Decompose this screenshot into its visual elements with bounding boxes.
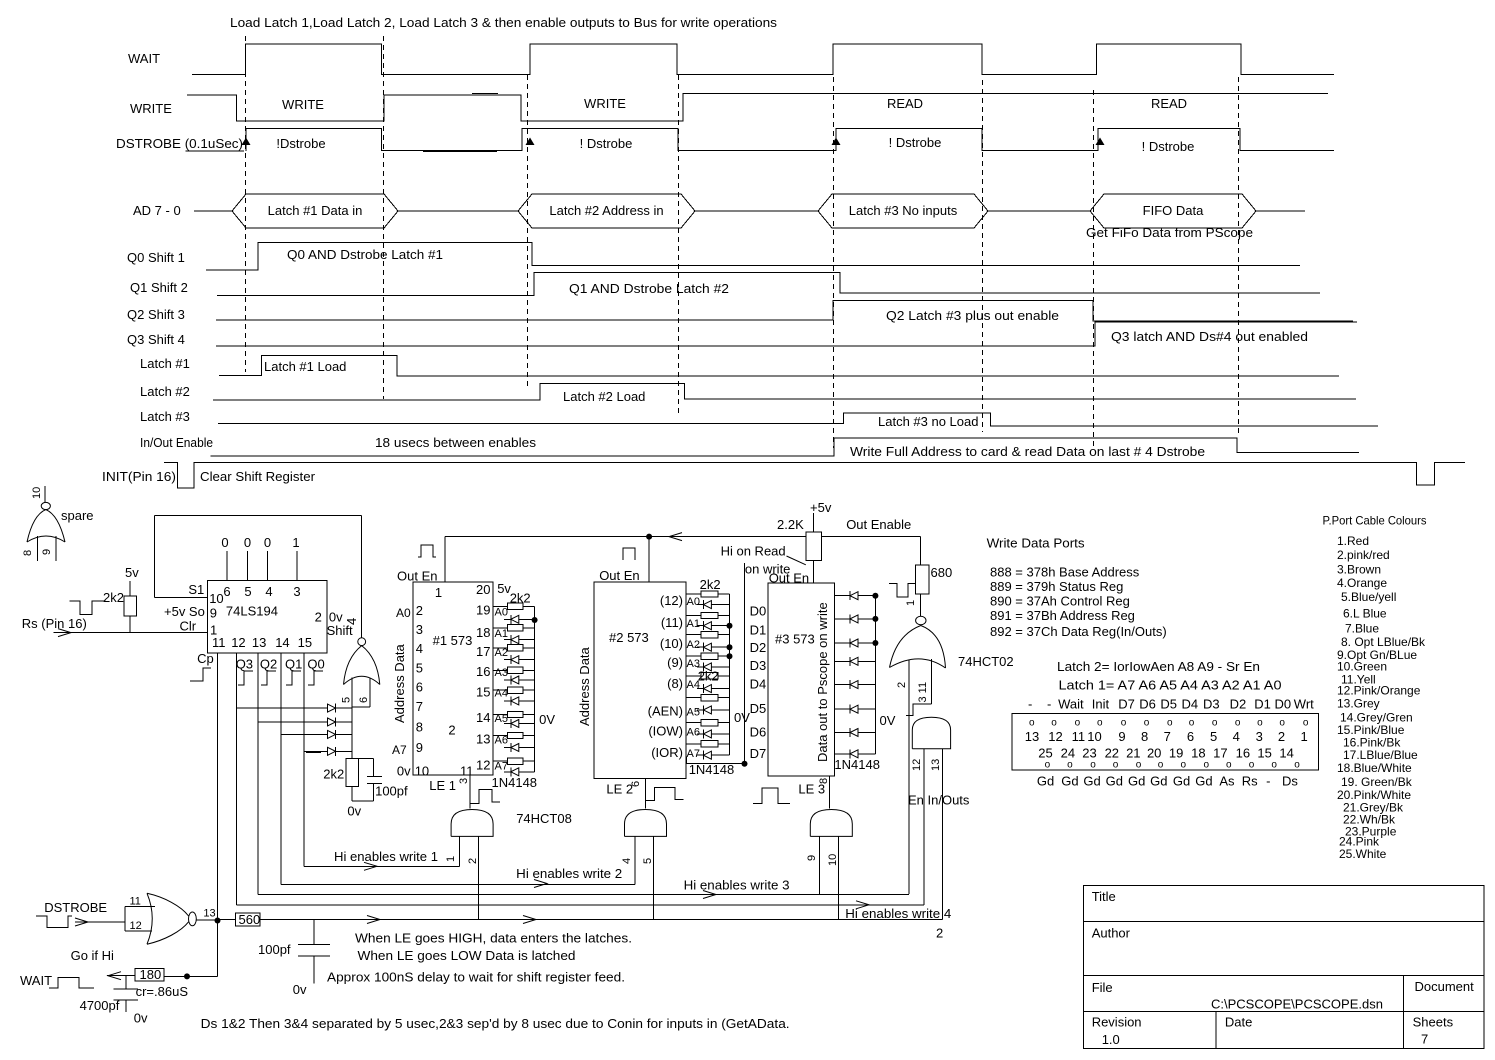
svg-text:WAIT: WAIT: [128, 51, 160, 66]
svg-text:0v: 0v: [134, 1011, 148, 1026]
svg-text:Q3: Q3: [236, 657, 253, 672]
svg-text:Latch #2 Load: Latch #2 Load: [563, 389, 645, 404]
svg-text:3: 3: [458, 778, 470, 784]
svg-text:3.Brown: 3.Brown: [1337, 563, 1381, 577]
svg-text:1N4148: 1N4148: [492, 775, 538, 790]
svg-text:File: File: [1092, 980, 1113, 995]
svg-text:Address Data: Address Data: [577, 646, 592, 726]
svg-text:Q1 AND Dstrobe Latch #2: Q1 AND Dstrobe Latch #2: [569, 281, 729, 296]
svg-text:When LE goes LOW Data is latch: When LE goes LOW Data is latched: [358, 948, 576, 963]
svg-text:2: 2: [448, 723, 455, 738]
svg-text:(9): (9): [667, 655, 683, 670]
svg-text:o: o: [1303, 718, 1309, 729]
svg-text:2k2: 2k2: [700, 577, 721, 592]
svg-text:WRITE: WRITE: [130, 101, 172, 116]
svg-text:A1: A1: [687, 618, 700, 630]
svg-text:0: 0: [244, 535, 251, 550]
svg-text:0V: 0V: [539, 712, 555, 727]
svg-text:o: o: [1279, 718, 1285, 729]
svg-text:14: 14: [476, 710, 490, 725]
svg-text:13: 13: [930, 759, 942, 771]
svg-text:! Dstrobe: ! Dstrobe: [580, 136, 633, 151]
svg-text:(11): (11): [661, 615, 683, 630]
svg-text:-: -: [1266, 774, 1270, 789]
svg-text:8: 8: [1141, 729, 1148, 744]
svg-text:2.pink/red: 2.pink/red: [1337, 548, 1390, 562]
svg-text:12: 12: [476, 758, 490, 773]
svg-text:892 = 37Ch Data Reg(In/Outs): 892 = 37Ch Data Reg(In/Outs): [990, 624, 1167, 639]
svg-text:10: 10: [209, 591, 223, 606]
svg-text:A5: A5: [687, 706, 700, 718]
svg-text:WRITE: WRITE: [584, 96, 626, 111]
svg-text:o: o: [1051, 718, 1057, 729]
svg-text:Latch #3 No inputs: Latch #3 No inputs: [849, 203, 958, 218]
svg-text:Latch 1= A7 A6 A5 A4 A3 A2: Latch 1= A7 A6 A5 A4 A3 A2 A1 A0: [1059, 678, 1282, 693]
svg-text:Gd: Gd: [1173, 774, 1190, 789]
svg-text:Q3 latch AND Ds#4 out enabled: Q3 latch AND Ds#4 out enabled: [1111, 329, 1308, 344]
svg-text:8: 8: [818, 778, 830, 784]
svg-text:12.Pink/Orange: 12.Pink/Orange: [1337, 684, 1421, 698]
svg-text:Latch #3: Latch #3: [140, 409, 190, 424]
svg-text:890 = 37Ah Control Reg: 890 = 37Ah Control Reg: [990, 593, 1130, 608]
svg-text:2: 2: [936, 926, 943, 941]
svg-text:o: o: [1204, 760, 1210, 771]
svg-text:12: 12: [1048, 729, 1062, 744]
svg-text:0v: 0v: [347, 804, 361, 819]
svg-text:5: 5: [416, 660, 423, 675]
svg-text:6: 6: [630, 781, 642, 787]
svg-text:15: 15: [1257, 746, 1271, 761]
svg-text:D1: D1: [750, 623, 767, 638]
svg-text:Hi enables write 3: Hi enables write 3: [684, 878, 790, 893]
svg-text:In/Out Enable: In/Out Enable: [140, 435, 213, 450]
svg-text:2: 2: [315, 610, 322, 625]
svg-text:5.Blue/yell: 5.Blue/yell: [1341, 590, 1396, 604]
svg-text:13: 13: [1025, 729, 1039, 744]
svg-text:4700pf: 4700pf: [80, 998, 120, 1013]
svg-text:10: 10: [827, 854, 839, 866]
svg-text:2.2K: 2.2K: [777, 517, 804, 532]
svg-text:(10): (10): [660, 636, 683, 651]
svg-text:o: o: [1257, 718, 1263, 729]
svg-text:!Dstrobe: !Dstrobe: [276, 136, 325, 151]
svg-text:AD 7 - 0: AD 7 - 0: [133, 203, 181, 218]
svg-text:2: 2: [416, 603, 423, 618]
svg-text:6: 6: [358, 697, 370, 703]
svg-text:! Dstrobe: ! Dstrobe: [1142, 139, 1195, 154]
svg-text:Q1 Shift 2: Q1 Shift 2: [130, 280, 188, 295]
svg-text:9: 9: [210, 606, 217, 621]
svg-text:INIT(Pin 16): INIT(Pin 16): [102, 469, 176, 484]
svg-text:1.0: 1.0: [1102, 1032, 1120, 1047]
svg-text:7.Blue: 7.Blue: [1345, 621, 1379, 635]
svg-text:1: 1: [435, 585, 442, 600]
svg-text:0v: 0v: [293, 982, 307, 997]
svg-text:7: 7: [1421, 1032, 1428, 1047]
svg-text:READ: READ: [1151, 96, 1187, 111]
svg-text:5: 5: [341, 697, 353, 703]
svg-text:A2: A2: [687, 639, 700, 651]
svg-text:S1: S1: [188, 582, 204, 597]
svg-text:Clear Shift Register: Clear Shift Register: [200, 469, 316, 484]
svg-text:P.Port Cable Colours: P.Port Cable Colours: [1323, 514, 1427, 528]
svg-text:6: 6: [223, 584, 230, 599]
svg-text:888 = 378h Base Address: 888 = 378h Base Address: [990, 564, 1140, 579]
svg-text:11: 11: [460, 764, 474, 779]
svg-text:-: -: [1047, 697, 1051, 712]
svg-text:1.Red: 1.Red: [1337, 534, 1369, 548]
svg-text:680: 680: [931, 565, 953, 580]
svg-text:Title: Title: [1092, 889, 1116, 904]
svg-text:Ds: Ds: [1282, 774, 1298, 789]
svg-text:D7: D7: [1118, 697, 1135, 712]
svg-text:9: 9: [806, 855, 818, 861]
svg-text:DSTROBE (0.1uSec): DSTROBE (0.1uSec): [116, 136, 243, 151]
svg-text:spare: spare: [61, 508, 94, 523]
svg-text:(IOR): (IOR): [651, 745, 683, 760]
svg-text:8. Opt LBlue/Bk: 8. Opt LBlue/Bk: [1341, 635, 1426, 649]
svg-text:13: 13: [476, 731, 490, 746]
svg-text:21: 21: [1126, 746, 1140, 761]
svg-text:Go if Hi: Go if Hi: [71, 948, 114, 963]
svg-text:+5v: +5v: [810, 500, 832, 515]
svg-text:As: As: [1219, 774, 1235, 789]
svg-text:18: 18: [1191, 746, 1205, 761]
svg-text:4: 4: [1233, 729, 1240, 744]
svg-text:Gd: Gd: [1037, 774, 1054, 789]
svg-text:889 = 379h Status Reg: 889 = 379h Status Reg: [990, 579, 1123, 594]
svg-text:Q0 Shift 1: Q0 Shift 1: [127, 250, 185, 265]
svg-text:Gd: Gd: [1195, 774, 1212, 789]
svg-text:17.LBlue/Blue: 17.LBlue/Blue: [1343, 748, 1418, 762]
svg-text:Write Data Ports: Write Data Ports: [987, 536, 1086, 551]
svg-text:9: 9: [416, 740, 423, 755]
svg-text:o: o: [1029, 718, 1035, 729]
svg-text:2: 2: [467, 858, 479, 864]
svg-text:D7: D7: [750, 746, 767, 761]
svg-text:WRITE: WRITE: [282, 97, 324, 112]
svg-text:A0: A0: [687, 596, 700, 608]
svg-text:Out En: Out En: [599, 568, 639, 583]
svg-text:D0: D0: [1275, 697, 1292, 712]
svg-text:Get FiFo Data from PScope: Get FiFo Data from PScope: [1086, 225, 1253, 240]
svg-text:+5v So: +5v So: [164, 604, 205, 619]
svg-text:o: o: [1249, 760, 1255, 771]
svg-text:Out Enable: Out Enable: [846, 517, 911, 532]
svg-text:15: 15: [298, 635, 312, 650]
svg-text:10: 10: [415, 764, 429, 779]
svg-text:0: 0: [221, 535, 228, 550]
svg-text:0: 0: [264, 535, 271, 550]
svg-text:18: 18: [476, 625, 490, 640]
svg-text:Hi on Read: Hi on Read: [721, 544, 786, 559]
svg-text:A6: A6: [687, 727, 700, 739]
svg-text:o: o: [1090, 760, 1096, 771]
svg-text:Document: Document: [1415, 979, 1475, 994]
svg-text:Gd: Gd: [1128, 774, 1145, 789]
svg-text:#2 573: #2 573: [609, 630, 649, 645]
svg-text:24: 24: [1061, 746, 1075, 761]
svg-text:1N4148: 1N4148: [689, 762, 735, 777]
svg-text:12: 12: [231, 635, 245, 650]
svg-text:Latch #1 Load: Latch #1 Load: [264, 359, 346, 374]
svg-text:17: 17: [1213, 746, 1227, 761]
svg-text:5v: 5v: [125, 565, 139, 580]
svg-text:o: o: [1144, 718, 1150, 729]
svg-text:#3 573: #3 573: [775, 632, 815, 647]
svg-text:Q2 Shift 3: Q2 Shift 3: [127, 307, 185, 322]
svg-text:15: 15: [476, 685, 490, 700]
svg-text:o: o: [1121, 718, 1127, 729]
svg-text:Q2: Q2: [260, 657, 277, 672]
svg-text:Gd: Gd: [1061, 774, 1078, 789]
svg-text:20: 20: [1147, 746, 1161, 761]
svg-text:(AEN): (AEN): [648, 703, 683, 718]
svg-text:Hi enables write 4: Hi enables write 4: [845, 906, 951, 921]
svg-text:Revision: Revision: [1092, 1015, 1142, 1030]
svg-text:En In/Outs: En In/Outs: [908, 793, 970, 808]
svg-text:19: 19: [1169, 746, 1183, 761]
svg-text:A1: A1: [495, 628, 508, 640]
svg-text:8: 8: [416, 720, 423, 735]
svg-text:Q2 Latch #3 plus out enable: Q2 Latch #3 plus out enable: [886, 308, 1059, 323]
svg-text:16: 16: [1236, 746, 1250, 761]
svg-text:D2: D2: [750, 640, 767, 655]
svg-text:o: o: [1294, 760, 1300, 771]
svg-text:Gd: Gd: [1083, 774, 1100, 789]
svg-text:Latch #1 Data in: Latch #1 Data in: [268, 203, 363, 218]
svg-text:Q0: Q0: [307, 657, 324, 672]
svg-text:19: 19: [476, 603, 490, 618]
svg-text:o: o: [1212, 718, 1218, 729]
svg-text:4: 4: [344, 618, 359, 625]
svg-text:When LE goes HIGH, data enters: When LE goes HIGH, data enters the latch…: [355, 931, 632, 946]
svg-text:A5: A5: [495, 713, 508, 725]
svg-text:Latch #2 Address in: Latch #2 Address in: [549, 203, 663, 218]
svg-text:o: o: [1271, 760, 1277, 771]
svg-text:A2: A2: [495, 647, 508, 659]
svg-text:D4: D4: [750, 677, 767, 692]
svg-text:3: 3: [1256, 729, 1263, 744]
svg-text:10: 10: [1087, 729, 1101, 744]
svg-text:Latch #2: Latch #2: [140, 384, 190, 399]
svg-text:5: 5: [244, 584, 251, 599]
svg-text:12: 12: [911, 759, 923, 771]
svg-text:o: o: [1067, 760, 1073, 771]
svg-text:READ: READ: [887, 96, 923, 111]
svg-text:o: o: [1235, 718, 1241, 729]
svg-text:4: 4: [621, 858, 633, 864]
svg-text:C:\PCSCOPE\PCSCOPE.dsn: C:\PCSCOPE\PCSCOPE.dsn: [1211, 997, 1383, 1012]
svg-text:100pf: 100pf: [375, 784, 408, 799]
svg-text:1: 1: [905, 600, 917, 606]
svg-text:Clr: Clr: [180, 619, 197, 634]
svg-text:12: 12: [130, 920, 142, 932]
svg-text:Author: Author: [1092, 926, 1131, 941]
svg-text:3: 3: [416, 622, 423, 637]
svg-text:2k2: 2k2: [103, 590, 124, 605]
svg-text:2: 2: [1278, 729, 1285, 744]
svg-text:Wrt: Wrt: [1294, 697, 1314, 712]
svg-text:2: 2: [896, 682, 908, 688]
svg-text:14: 14: [275, 635, 289, 650]
svg-text:20: 20: [476, 582, 490, 597]
svg-text:(12): (12): [660, 593, 683, 608]
svg-text:2k2: 2k2: [698, 669, 719, 684]
svg-text:Sheets: Sheets: [1413, 1015, 1454, 1030]
svg-text:5: 5: [1210, 729, 1217, 744]
svg-text:A7: A7: [687, 748, 700, 760]
svg-text:74HCT02: 74HCT02: [958, 654, 1014, 669]
svg-text:A0: A0: [396, 606, 411, 620]
svg-text:74LS194: 74LS194: [226, 604, 278, 619]
svg-text:A7: A7: [495, 761, 508, 773]
svg-text:cr=.86uS: cr=.86uS: [136, 984, 189, 999]
svg-text:2k2: 2k2: [323, 767, 344, 782]
svg-text:0V: 0V: [734, 710, 750, 725]
svg-text:D4: D4: [1182, 697, 1199, 712]
svg-text:o: o: [1113, 760, 1119, 771]
svg-text:WAIT: WAIT: [20, 973, 52, 988]
svg-text:A7: A7: [392, 743, 407, 757]
svg-text:Approx 100nS delay to wait for: Approx 100nS delay to wait for shift reg…: [327, 970, 625, 985]
svg-text:Latch #1: Latch #1: [140, 356, 190, 371]
svg-text:23: 23: [1082, 746, 1096, 761]
svg-text:4: 4: [416, 641, 423, 656]
svg-text:3: 3: [293, 584, 300, 599]
svg-text:16: 16: [476, 664, 490, 679]
svg-text:74HCT08: 74HCT08: [516, 811, 572, 826]
svg-text:13.Grey: 13.Grey: [1337, 697, 1380, 711]
svg-text:on write: on write: [745, 562, 791, 577]
svg-text:11: 11: [1072, 729, 1086, 744]
svg-text:18 usecs between enables: 18 usecs between enables: [375, 435, 537, 450]
svg-text:D3: D3: [750, 658, 767, 673]
svg-text:11: 11: [130, 896, 141, 908]
svg-text:11: 11: [212, 635, 226, 650]
svg-text:o: o: [1226, 760, 1232, 771]
svg-text:LE 1: LE 1: [429, 778, 456, 793]
svg-text:100pf: 100pf: [258, 942, 291, 957]
svg-text:17: 17: [476, 644, 490, 659]
svg-text:5: 5: [642, 858, 654, 864]
svg-text:8: 8: [22, 550, 34, 556]
svg-text:Date: Date: [1225, 1015, 1252, 1030]
svg-text:(IOW): (IOW): [648, 724, 683, 739]
svg-text:Rs (Pin 16): Rs (Pin 16): [22, 616, 87, 631]
svg-text:180: 180: [140, 967, 162, 982]
svg-text:25.White: 25.White: [1339, 847, 1387, 861]
svg-text:10: 10: [31, 487, 43, 499]
svg-text:A6: A6: [495, 734, 508, 746]
svg-text:D5: D5: [1160, 697, 1177, 712]
svg-text:1: 1: [292, 535, 299, 550]
svg-text:18.Blue/White: 18.Blue/White: [1337, 761, 1412, 775]
svg-text:9: 9: [41, 549, 53, 555]
svg-text:7: 7: [1164, 729, 1171, 744]
svg-text:! Dstrobe: ! Dstrobe: [889, 135, 942, 150]
svg-text:o: o: [1136, 760, 1142, 771]
svg-text:Cp: Cp: [197, 651, 214, 666]
svg-text:Write Full Address to card &: Write Full Address to card & read Data o…: [850, 444, 1205, 459]
svg-text:D6: D6: [1139, 697, 1156, 712]
svg-text:Wait: Wait: [1058, 697, 1084, 712]
svg-text:0v: 0v: [397, 764, 411, 779]
svg-text:Latch 2= IorIowAen A8 A9 -: Latch 2= IorIowAen A8 A9 - Sr En: [1057, 659, 1260, 674]
svg-text:#1 573: #1 573: [433, 633, 473, 648]
svg-text:Load Latch 1,Load Latch 2, Loa: Load Latch 1,Load Latch 2, Load Latch 3 …: [230, 15, 778, 30]
svg-text:Q3 Shift 4: Q3 Shift 4: [127, 332, 185, 347]
svg-text:o: o: [1167, 718, 1173, 729]
svg-text:A4: A4: [495, 688, 508, 700]
svg-text:560: 560: [239, 912, 261, 927]
svg-text:6: 6: [416, 679, 423, 694]
svg-text:13: 13: [252, 635, 266, 650]
svg-text:o: o: [1097, 718, 1103, 729]
svg-text:4.Orange: 4.Orange: [1337, 576, 1387, 590]
svg-text:6: 6: [1187, 729, 1194, 744]
svg-text:25: 25: [1038, 746, 1052, 761]
svg-text:Latch #3 no Load: Latch #3 no Load: [878, 414, 978, 429]
svg-text:Gd: Gd: [1150, 774, 1167, 789]
svg-text:19. Green/Bk: 19. Green/Bk: [1341, 775, 1413, 789]
svg-text:A0: A0: [495, 607, 508, 619]
svg-text:7: 7: [416, 699, 423, 714]
svg-text:Hi enables write 1: Hi enables write 1: [334, 849, 438, 864]
svg-text:3 11: 3 11: [917, 682, 929, 703]
svg-text:Q1: Q1: [285, 657, 302, 672]
svg-text:A3: A3: [495, 667, 508, 679]
svg-text:o: o: [1181, 760, 1187, 771]
svg-text:6.L Blue: 6.L Blue: [1343, 607, 1387, 621]
svg-text:1: 1: [1300, 729, 1307, 744]
svg-text:D1: D1: [1254, 697, 1271, 712]
svg-text:14: 14: [1279, 746, 1293, 761]
svg-text:(8): (8): [667, 676, 683, 691]
svg-text:D0: D0: [750, 604, 767, 619]
svg-text:D2: D2: [1230, 697, 1247, 712]
svg-text:1N4148: 1N4148: [834, 757, 880, 772]
svg-text:-: -: [1028, 697, 1032, 712]
svg-text:D6: D6: [750, 725, 767, 740]
svg-text:Gd: Gd: [1106, 774, 1123, 789]
svg-text:0V: 0V: [880, 713, 896, 728]
svg-text:D3: D3: [1203, 697, 1220, 712]
svg-text:Q0 AND Dstrobe Latch #1: Q0 AND Dstrobe Latch #1: [287, 247, 443, 262]
svg-text:22: 22: [1105, 746, 1119, 761]
svg-text:Rs: Rs: [1242, 774, 1258, 789]
svg-text:1: 1: [445, 856, 457, 862]
svg-text:D5: D5: [750, 701, 767, 716]
svg-text:891 = 37Bh Address Reg: 891 = 37Bh Address Reg: [990, 608, 1135, 623]
svg-text:4: 4: [265, 584, 272, 599]
svg-text:Data out to Pscope on write: Data out to Pscope on write: [815, 602, 830, 762]
svg-text:o: o: [1189, 718, 1195, 729]
svg-text:Out En: Out En: [397, 569, 437, 584]
svg-text:Address Data: Address Data: [392, 643, 407, 723]
svg-text:9: 9: [1118, 729, 1125, 744]
svg-text:DSTROBE: DSTROBE: [44, 900, 107, 915]
svg-text:o: o: [1075, 718, 1081, 729]
svg-text:13: 13: [203, 908, 215, 920]
svg-text:Hi enables write 2: Hi enables write 2: [516, 866, 622, 881]
svg-text:FIFO Data: FIFO Data: [1143, 203, 1204, 218]
svg-text:Init: Init: [1092, 697, 1110, 712]
svg-text:o: o: [1045, 760, 1051, 771]
svg-text:Ds 1&2 Then 3&4 separated by: Ds 1&2 Then 3&4 separated by 5 usec,2&3 …: [201, 1016, 790, 1031]
svg-text:o: o: [1158, 760, 1164, 771]
